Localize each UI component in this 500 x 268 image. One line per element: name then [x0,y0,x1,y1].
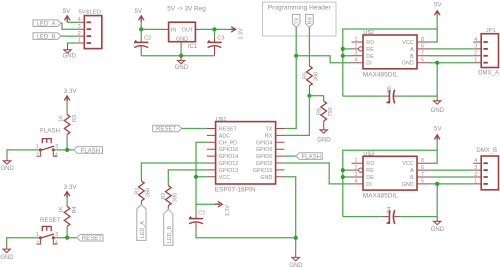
wire GPIO13 to R2 [168,170,207,183]
net flag FLASH (at esp) [285,153,323,161]
wire B to JP1 pin 2 [430,55,474,57]
svg-text:3.3V: 3.3V [64,88,78,95]
ic U$3 MAX485DIL [352,151,430,199]
svg-text:5V: 5V [434,1,442,8]
node junction gnd rail [294,236,298,240]
svg-text:6: 6 [421,165,424,171]
node junction divider [307,94,311,98]
svg-text:C1: C1 [198,210,205,216]
svg-text:ESP07-16PIN: ESP07-16PIN [215,186,256,193]
resistor R5 390 [302,60,319,96]
node junction gnd A [435,61,439,65]
module U$1 ESP07-16PIN [207,117,285,193]
supply 3.3V (regulator output) [230,27,244,40]
wire ground rail C2-IC1-C3 [141,48,214,55]
svg-text:TX: TX [294,17,300,24]
svg-text:FLASH: FLASH [40,127,60,134]
svg-text:R1: R1 [134,188,140,195]
svg-text:GND: GND [317,137,331,143]
wire divider to R6 [309,95,323,97]
svg-text:5: 5 [421,179,424,185]
svg-text:GND: GND [402,61,414,67]
svg-text:RX: RX [308,17,314,25]
svg-text:MAX485DIL: MAX485DIL [363,71,398,78]
svg-text:IC1: IC1 [188,44,198,50]
wire IC1 OUT to 3.3V [200,28,231,30]
svg-text:4: 4 [355,179,358,185]
wire R3 to flash node [66,140,68,150]
svg-text:2: 2 [355,165,358,171]
supply 5V (max485 B) [434,126,442,140]
svg-text:R4: R4 [72,206,78,213]
capacitor C3 [207,29,224,55]
ground (max485 B) [431,217,445,233]
resistor R3 1K [59,111,79,140]
svg-text:4: 4 [55,240,58,246]
svg-text:1: 1 [474,58,477,64]
svg-text:JP1: JP1 [486,28,496,34]
svg-text:3: 3 [355,51,358,57]
svg-text:5V: 5V [63,8,71,15]
supply 5V (regulator input) [135,8,145,22]
svg-text:4: 4 [355,58,358,64]
svg-text:FLASH: FLASH [81,148,100,154]
svg-text:1K: 1K [59,206,65,213]
svg-text:R6: R6 [317,108,323,115]
svg-text:A: A [410,47,414,53]
svg-text:MAX485DIL: MAX485DIL [363,193,398,200]
svg-text:C5: C5 [387,86,393,93]
svg-text:8: 8 [421,158,424,164]
wire GPIO12 to R1 [141,163,206,179]
wire VCC to rail [196,177,207,204]
svg-text:B: B [410,175,414,181]
svg-text:C4: C4 [387,207,393,214]
ic U$2 MAX485DIL [352,30,430,78]
net flag LED_B [33,33,61,41]
svg-text:1: 1 [36,232,39,238]
connector JP1 DMX_A [473,28,499,77]
wire header pin 1 to GND [68,43,79,44]
svg-text:RX: RX [265,133,273,139]
net flag TX [292,14,300,27]
svg-text:RESET: RESET [219,127,238,133]
net flag RX [306,14,314,27]
ground (regulator) [175,56,189,71]
node junction TX [294,54,298,58]
node junction gnd B [435,182,439,186]
svg-text:DMX_A: DMX_A [478,71,499,77]
node junction flash [65,148,69,152]
svg-text:R5: R5 [302,72,308,79]
svg-text:VCC: VCC [219,175,230,181]
wire ESP RX up to divider node [285,96,310,136]
svg-text:C3: C3 [217,36,224,42]
svg-text:8: 8 [421,37,424,43]
wire A to JP1 pin 3 [430,48,474,50]
svg-text:390: 390 [314,72,320,81]
svg-text:A: A [410,168,414,174]
supply 3.3V (reset pullup) [64,184,78,198]
wire CH_PD to 3.3V rail [196,142,207,177]
wire 3.3V to R4 [66,198,68,204]
svg-text:GPIO2: GPIO2 [256,161,272,167]
wire 5V rail to RE DE [343,29,437,96]
wire ESP TX up to TX node [285,56,297,129]
svg-text:2: 2 [474,172,477,178]
wire flash button to GND [7,150,39,156]
svg-text:CH_PD: CH_PD [219,140,237,146]
wire TX net to U$2 DI and ESP TX [296,27,351,62]
svg-text:1: 1 [474,179,477,185]
svg-text:DE: DE [366,54,374,60]
ground (below LED header) [63,44,77,60]
svg-text:390: 390 [173,193,179,202]
svg-text:VCC: VCC [402,161,413,167]
svg-text:RO: RO [366,161,374,167]
svg-text:LED_A: LED_A [140,221,146,238]
svg-text:DI: DI [366,182,371,188]
svg-text:6: 6 [421,44,424,50]
IC1 regulator [164,22,199,50]
svg-text:GND: GND [431,108,445,114]
svg-text:GND: GND [63,54,77,60]
svg-text:Programming Header: Programming Header [268,5,332,12]
ground (reset button) [0,244,14,262]
capacitor C1 [189,204,206,230]
connector SV1 5V&LED [78,9,102,48]
wire LED_A to header pin 3 [61,23,78,29]
programming header frame [263,2,337,36]
svg-text:4: 4 [78,17,81,23]
button S? FLASH [36,127,60,158]
svg-text:RESET: RESET [82,236,102,242]
svg-text:GPIO16: GPIO16 [219,147,238,153]
node junction VCC [194,175,198,179]
svg-text:3: 3 [78,24,81,30]
wire RX net down to R5 [308,27,310,59]
supply 5V (top-left) [63,8,71,22]
net flag LED_A (bottom) [137,205,146,241]
svg-text:RE: RE [366,47,374,53]
capacitor C4 [343,207,437,224]
svg-text:C2: C2 [144,36,151,42]
ground (divider) [317,130,331,144]
net flag FLASH (left) [74,147,103,155]
svg-text:7: 7 [421,172,424,178]
svg-text:GPIO14: GPIO14 [219,154,238,160]
wire R4 to reset node [66,230,68,238]
svg-text:2: 2 [78,31,81,37]
wire ESP GND down to ground [285,177,296,251]
svg-text:3: 3 [474,165,477,171]
svg-text:5V -> 3V Reg: 5V -> 3V Reg [167,5,206,12]
svg-text:VCC: VCC [402,40,413,46]
svg-text:3: 3 [355,172,358,178]
capacitor C5 [343,86,437,103]
svg-text:GND: GND [175,65,189,71]
wire flash node to flag [55,149,74,151]
supply 3.3V (esp) [196,201,231,216]
net flag RESET (left) [77,234,103,242]
svg-text:GND: GND [431,227,445,233]
wire 5V to IC1 IN [141,22,164,29]
wire GND pin 5 to DMX_B [430,184,474,217]
wire GPIO2 to U$3 DI [285,163,352,184]
svg-text:4: 4 [474,158,477,164]
node junction at C3 [212,27,216,31]
svg-text:7: 7 [421,51,424,57]
svg-text:5: 5 [421,58,424,64]
node junction reset [65,236,69,240]
wire B to DMX_B pin 2 [430,176,474,178]
supply 5V (max485 A) [434,1,442,15]
svg-text:FLASH: FLASH [302,154,321,160]
net flag LED_B (bottom) [164,209,173,245]
svg-text:GND: GND [176,36,188,42]
svg-text:GPIO4: GPIO4 [256,140,272,146]
svg-text:GPIO15: GPIO15 [253,168,272,174]
svg-text:R3: R3 [72,115,78,122]
svg-text:4: 4 [55,153,58,159]
node junction at C2 [139,27,143,31]
svg-text:GND: GND [0,255,14,261]
svg-text:GPIO0: GPIO0 [256,154,272,160]
svg-text:DMX_B: DMX_B [476,148,497,154]
capacitor C2 [134,29,151,55]
svg-text:2: 2 [355,44,358,50]
svg-text:GND: GND [402,182,414,188]
connector JP2 DMX_B [473,148,498,190]
svg-text:3.3V: 3.3V [64,184,78,191]
svg-text:4: 4 [474,37,477,43]
svg-text:B: B [410,54,414,60]
svg-text:GND: GND [289,263,303,268]
svg-text:3: 3 [474,44,477,50]
svg-text:RO: RO [366,40,374,46]
svg-text:IN: IN [171,27,177,33]
resistor R6 750 [317,96,334,130]
svg-text:5V&LED: 5V&LED [79,9,102,15]
svg-text:GPIO5: GPIO5 [256,147,272,153]
svg-text:3: 3 [55,232,58,238]
ground (flash button) [1,156,15,172]
svg-text:TX: TX [266,127,273,133]
svg-text:GPIO13: GPIO13 [219,168,238,174]
ground (max485 A) [431,96,445,114]
svg-text:LED_A: LED_A [36,21,55,27]
svg-text:ADC: ADC [219,133,230,139]
svg-text:2: 2 [36,240,39,246]
svg-text:750: 750 [328,107,334,116]
node junction RE B [341,168,345,172]
svg-text:1K: 1K [59,115,65,122]
wire LED_B to header pin 2 [61,35,78,37]
svg-text:DI: DI [366,61,371,67]
svg-text:3.3V: 3.3V [239,28,245,40]
svg-text:LED_B: LED_B [36,34,55,40]
resistor R4 1K [59,203,79,230]
wire 5V to VCC pin 8 (B) [430,140,438,163]
svg-text:3: 3 [55,144,58,150]
svg-text:GPIO12: GPIO12 [219,161,238,167]
wire 5V rail to RE DE (B) [343,150,437,216]
svg-text:RESET: RESET [156,127,176,133]
node junction DE B [341,175,345,179]
svg-text:2: 2 [36,153,39,159]
svg-text:1: 1 [355,158,358,164]
svg-text:1: 1 [36,144,39,150]
wire reset button to GND [7,238,39,244]
svg-text:1: 1 [355,37,358,43]
svg-text:RE: RE [366,168,374,174]
svg-text:DE: DE [366,175,374,181]
svg-text:GND: GND [260,175,272,181]
net flag RESET (at esp) [153,125,182,133]
resistor R1 390 [134,179,151,205]
net flag LED_A [33,20,61,28]
svg-text:LED_B: LED_B [167,226,173,243]
svg-text:GND: GND [1,166,15,172]
supply 3.3V (flash pullup) [64,88,78,102]
svg-text:1: 1 [78,38,81,44]
wire 5V to header pin 4 [67,21,78,23]
wire reset node to flag [55,237,77,239]
svg-text:R2: R2 [161,193,167,200]
resistor R2 390 [161,183,178,209]
wire GND pin 5 to JP1 [430,63,474,96]
svg-text:5V: 5V [135,8,143,15]
ground (esp) [289,251,303,268]
svg-text:OUT: OUT [182,27,194,33]
wire 5V to VCC pin 8 [430,14,438,42]
node junction DE [341,54,345,58]
svg-text:3.3V: 3.3V [225,205,231,217]
svg-text:390: 390 [146,188,152,197]
node junction RE [341,47,345,51]
node junction at IC1 gnd [179,54,183,58]
svg-text:2: 2 [474,51,477,57]
wire C1 to gnd rail [196,230,296,237]
wire A to DMX_B pin 3 [430,169,474,171]
svg-text:RESET: RESET [40,217,61,224]
wire RESET flag to pin [182,128,207,130]
svg-text:5V: 5V [434,126,442,133]
wire 3.3V to R3 [66,102,68,111]
button S? RESET [36,217,61,247]
